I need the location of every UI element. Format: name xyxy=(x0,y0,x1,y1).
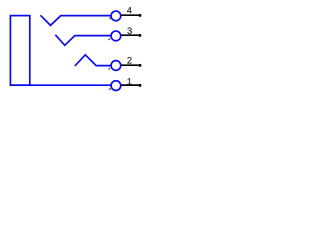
pin 1 number xyxy=(128,78,132,84)
pin 3 line xyxy=(121,34,138,36)
pin 4 line xyxy=(121,14,138,16)
pin 1 circle xyxy=(111,81,121,91)
pin 2 end dot xyxy=(138,64,141,67)
wire pin4 tip contact xyxy=(41,15,111,25)
pin 4 circle xyxy=(111,11,121,21)
pin 1 end dot xyxy=(138,84,141,87)
pin 3 end dot xyxy=(138,34,141,37)
pin 1 name mark xyxy=(109,88,111,90)
pin 2 name mark xyxy=(108,68,110,70)
pin 4 name mark xyxy=(109,17,111,19)
wire pin1 sleeve xyxy=(10,84,110,86)
jack body rectangle xyxy=(10,16,29,86)
pin 2 circle xyxy=(111,61,121,71)
wire pin3 tip switch contact xyxy=(55,35,111,46)
pin 2 line xyxy=(121,64,138,66)
pin 2 number xyxy=(127,57,131,63)
pin 1 line xyxy=(121,84,138,86)
wire pin2 ring contact xyxy=(75,55,111,66)
pin 4 number xyxy=(127,7,132,13)
pin 3 number xyxy=(127,28,131,35)
pin 4 end dot xyxy=(138,14,141,17)
pin 3 name mark xyxy=(108,38,110,40)
pin 3 circle xyxy=(111,31,121,41)
